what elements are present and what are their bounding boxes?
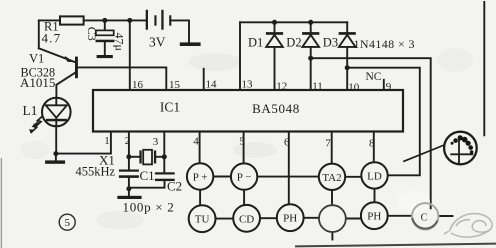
wire pin 3 to C2 [163, 131, 165, 172]
node D1 top [272, 20, 277, 25]
svg-text:14: 14 [206, 79, 218, 91]
svg-text:100p × 2: 100p × 2 [123, 200, 175, 215]
svg-text:PH: PH [283, 213, 297, 225]
wire CD to PH [260, 217, 277, 219]
ground under C1 C2 [117, 196, 141, 199]
svg-text:12: 12 [276, 80, 287, 92]
svg-text:1N4148 × 3: 1N4148 × 3 [354, 37, 415, 51]
svg-text:5: 5 [239, 136, 245, 148]
svg-text:IC1: IC1 [160, 100, 180, 115]
wire ground stub under LED [55, 154, 57, 161]
svg-text:PH: PH [367, 211, 381, 223]
resistor R1 [60, 16, 84, 24]
svg-text:C3: C3 [85, 27, 99, 41]
wire pin 5 [243, 131, 245, 163]
bottom scan edge line [295, 244, 496, 247]
crystal X1 [139, 150, 156, 165]
wire battery to ground [171, 20, 189, 42]
wire stub below blank key [331, 232, 333, 240]
svg-text:16: 16 [132, 79, 144, 91]
svg-text:455kHz: 455kHz [76, 165, 116, 179]
wire PH lower to washed key [388, 215, 412, 217]
wire pin 13 to diode rail [239, 22, 241, 89]
diode D2 [302, 32, 319, 47]
op IC1 BA5048 box [93, 90, 403, 132]
svg-text:BA5048: BA5048 [252, 101, 300, 116]
svg-text:D3: D3 [323, 35, 338, 49]
key TU [189, 205, 216, 232]
wire pin 10 matrix row inner [347, 68, 420, 176]
wire TA2 to LD [345, 176, 361, 178]
wire crystal right lead [156, 156, 164, 158]
wire washed key right lead [438, 215, 452, 217]
wire pin 9 stub NC [383, 80, 385, 90]
capacitor C1 [119, 170, 139, 178]
svg-text:C2: C2 [167, 178, 182, 193]
left scan edge line [0, 158, 2, 248]
wire pin 8 [373, 131, 375, 162]
node pin 3 [162, 154, 167, 159]
ground under C3 [97, 55, 113, 58]
wire P+ to TU [199, 190, 201, 206]
svg-text:TU: TU [195, 214, 210, 226]
svg-text:4.7: 4.7 [42, 31, 62, 46]
svg-text:47μ: 47μ [113, 32, 127, 50]
wire P- to TA2 [257, 176, 319, 178]
capacitor C3 plates [96, 30, 115, 42]
svg-text:L1: L1 [23, 103, 38, 118]
node D2 bottom [308, 56, 313, 61]
wire emitter slant [39, 48, 75, 62]
wire base to pin 15 [78, 67, 166, 89]
svg-text:3V: 3V [149, 34, 166, 49]
watermark flourish [444, 214, 492, 238]
svg-text:V1: V1 [29, 52, 44, 66]
LED light arrows [31, 116, 43, 133]
svg-text:5: 5 [64, 217, 70, 229]
key P- [231, 163, 257, 189]
wire pin 16 vertical [129, 20, 131, 89]
svg-text:D1: D1 [248, 35, 263, 49]
svg-text:P +: P + [193, 172, 208, 184]
key TA2 [319, 164, 345, 190]
wire diode top rail [240, 21, 347, 23]
wire LED cathode down [55, 126, 57, 153]
wire LD to PH lower [374, 189, 376, 203]
wire C1 bottom lead [128, 178, 130, 196]
svg-text:LD: LD [367, 170, 382, 182]
svg-text:10: 10 [348, 81, 360, 93]
wire pin 4 [199, 131, 201, 163]
wire PH to blank key [304, 217, 320, 219]
svg-text:6: 6 [284, 137, 290, 149]
svg-text:3: 3 [153, 136, 159, 148]
svg-text:P −: P − [237, 172, 252, 184]
node pin 2 [126, 154, 131, 159]
key PH [277, 204, 304, 231]
wire collector to LED [56, 72, 76, 98]
svg-text:NC: NC [366, 71, 382, 83]
node D2 top [308, 20, 313, 25]
node C3 top [102, 18, 107, 23]
svg-text:C: C [421, 213, 428, 224]
key CD [233, 205, 260, 232]
node C1 C2 ground [126, 186, 131, 191]
key blank [319, 205, 346, 232]
wire pin 14 stub [203, 69, 205, 90]
stamp circle callout line [403, 145, 444, 162]
svg-text:A1015: A1015 [20, 75, 55, 90]
svg-text:4: 4 [193, 135, 199, 147]
LED L1 [42, 98, 71, 127]
wire blank key to PH lower [346, 218, 361, 220]
wire TU to CD [215, 218, 233, 220]
svg-text:1: 1 [104, 135, 110, 147]
wire D2 leads pin 11 [310, 22, 312, 89]
wire C3 bottom lead [104, 42, 106, 55]
wire P+ to P- [213, 176, 231, 178]
circled figure number 5 [59, 214, 75, 230]
white halo smudge [398, 191, 430, 213]
wire node A to pin 1 [56, 131, 111, 153]
wire top supply rail [39, 19, 146, 21]
wire TA2 to blank key [331, 190, 333, 205]
svg-text:7: 7 [325, 138, 331, 150]
wire right edge vertical [483, 2, 485, 135]
node A junction dot [53, 151, 58, 156]
key P+ [187, 163, 213, 189]
svg-text:9: 9 [386, 81, 392, 93]
wire left drop to emitter [38, 20, 40, 48]
wire crystal left lead [129, 156, 140, 158]
wire P- to CD [243, 190, 245, 205]
ground under LED [45, 160, 65, 163]
wire D3 leads pin 10 [346, 22, 348, 89]
svg-text:8: 8 [369, 137, 375, 149]
wire pin 7 [331, 131, 333, 163]
wire D1 leads pin 12 [274, 22, 276, 89]
key washed out [412, 203, 438, 229]
wire C2 bottom to ground node [129, 181, 165, 188]
svg-text:TA2: TA2 [322, 172, 341, 184]
svg-text:D2: D2 [286, 35, 301, 49]
svg-text:2: 2 [125, 135, 131, 147]
svg-text:15: 15 [169, 79, 181, 91]
svg-text:C1: C1 [140, 168, 155, 183]
key PH lower [361, 202, 388, 229]
node D3 bottom [345, 65, 350, 70]
wire C3 top lead [104, 20, 106, 30]
wire pin 2 to crystal node [128, 131, 130, 169]
battery 3V plates [146, 10, 172, 30]
wire pin 6 to PH [288, 131, 290, 204]
svg-text:CD: CD [239, 213, 254, 225]
svg-text:13: 13 [242, 79, 254, 91]
diode D1 [266, 32, 283, 47]
ground battery [180, 42, 201, 46]
diode D3 [339, 32, 356, 47]
capacitor C2 [155, 172, 175, 181]
wire pin 11 matrix row outer [311, 58, 431, 208]
key LD [361, 162, 387, 188]
stamp circle [444, 132, 477, 165]
svg-text:11: 11 [312, 80, 323, 92]
node pin16 rail [127, 18, 132, 23]
transistor V1 base bar [75, 57, 78, 79]
transistor V1 emitter arrow [65, 56, 75, 62]
